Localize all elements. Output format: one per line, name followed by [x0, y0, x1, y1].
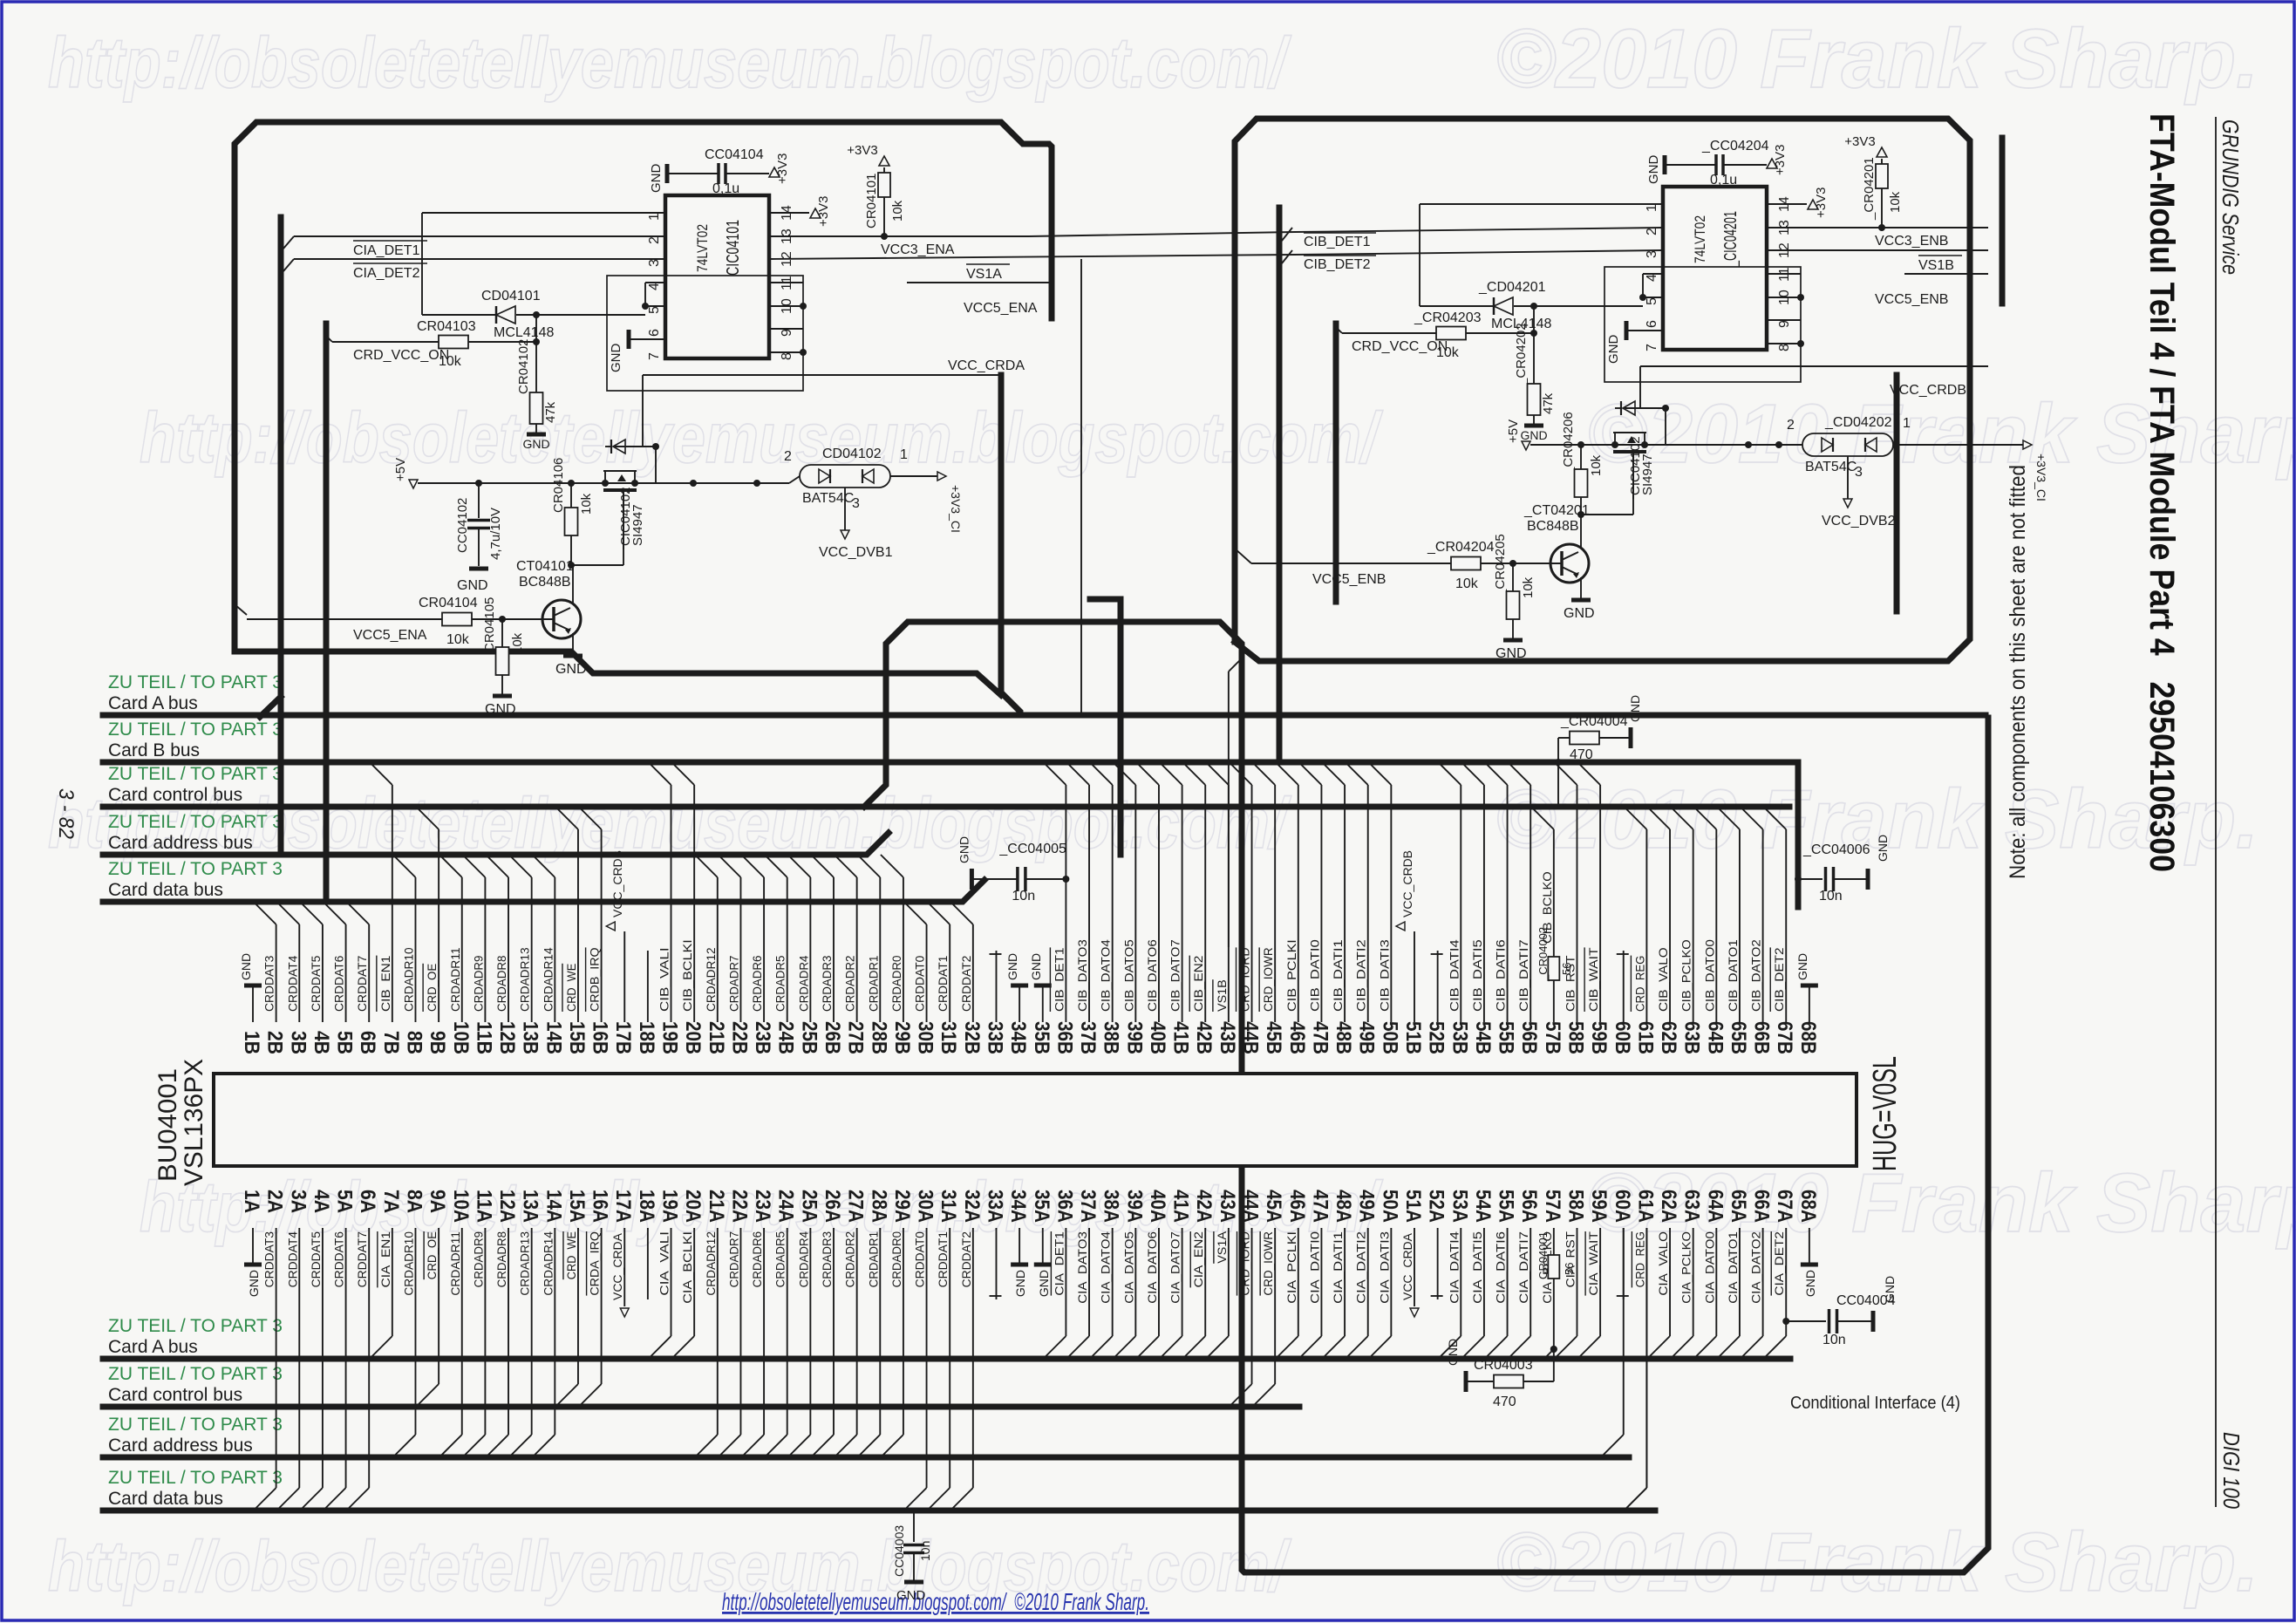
svg-text:CRDADR11: CRDADR11	[448, 947, 462, 1012]
ground below CR04102	[527, 433, 546, 437]
wire pin9 stub	[769, 328, 803, 330]
svg-text:47B: 47B	[1308, 1021, 1332, 1054]
svg-text:CIA_DATO7: CIA_DATO7	[1168, 1231, 1182, 1304]
svg-text:27A: 27A	[844, 1190, 868, 1223]
svg-text:41A: 41A	[1169, 1190, 1193, 1223]
svg-text:42A: 42A	[1192, 1190, 1216, 1223]
svg-text:CRDADR4: CRDADR4	[796, 1231, 810, 1288]
svg-text:65B: 65B	[1727, 1021, 1750, 1054]
svg-text:ZU TEIL / TO PART 3: ZU TEIL / TO PART 3	[108, 812, 283, 832]
svg-text:8: 8	[780, 352, 794, 360]
svg-text:10k: 10k	[890, 200, 905, 222]
card B trunk VCC down to bus	[1894, 375, 1900, 611]
svg-text:1: 1	[647, 213, 662, 221]
svg-text:CIA_BCLKI: CIA_BCLKI	[680, 1231, 694, 1304]
wire VCC_CRDA	[643, 374, 1001, 376]
svg-text:CRDADR12: CRDADR12	[704, 1231, 718, 1296]
svg-text:GND: GND	[1520, 428, 1547, 442]
ground at emitter CT04101	[572, 633, 574, 654]
svg-text:GND: GND	[555, 662, 587, 677]
svg-text:CRDDAT3: CRDDAT3	[262, 1231, 276, 1288]
svg-text:2: 2	[1787, 418, 1795, 433]
svg-text:CRDADR5: CRDADR5	[773, 1231, 787, 1288]
svg-text:_CR04203: _CR04203	[1414, 310, 1482, 325]
svg-text:52B: 52B	[1425, 1021, 1448, 1054]
svg-text:CRDADR7: CRDADR7	[726, 955, 740, 1012]
svg-text:CIA_DET2: CIA_DET2	[353, 266, 420, 281]
ground below _CR04205	[1503, 638, 1523, 643]
svg-text:24B: 24B	[774, 1021, 798, 1054]
svg-text:CIB_PCLKO: CIB_PCLKO	[1679, 939, 1693, 1012]
thick vertical trunk left A1	[278, 217, 284, 855]
wire pin8 stub	[1767, 343, 1801, 344]
svg-text:39A: 39A	[1122, 1190, 1146, 1223]
svg-text:17B: 17B	[611, 1021, 635, 1054]
svg-text:47k: 47k	[543, 401, 558, 423]
resistor _CR04205 10k	[1512, 563, 1514, 591]
svg-text:46A: 46A	[1285, 1190, 1309, 1223]
svg-text:CIA_RST: CIA_RST	[1563, 1231, 1577, 1288]
svg-text:CIA_PCLKO: CIA_PCLKO	[1679, 1231, 1693, 1304]
svg-text:CIB_DATO5: CIB_DATO5	[1121, 939, 1135, 1012]
VS1A trunk down from card A	[1080, 259, 1082, 713]
transistor CT04101 BC848B	[542, 600, 581, 638]
svg-text:3: 3	[1855, 465, 1863, 480]
svg-text:2: 2	[784, 449, 792, 464]
svg-text:13B: 13B	[519, 1021, 542, 1054]
svg-text:35B: 35B	[1030, 1021, 1053, 1054]
svg-text:CRDDAT5: CRDDAT5	[309, 1231, 323, 1288]
svg-text:ZU TEIL / TO PART 3: ZU TEIL / TO PART 3	[108, 859, 283, 879]
wire VCC5_ENA chamfer from envelope	[235, 604, 247, 615]
svg-text:36B: 36B	[1053, 1021, 1076, 1054]
svg-text:24A: 24A	[774, 1190, 798, 1223]
svg-text:+3V3: +3V3	[847, 143, 877, 158]
svg-text:CIB_WAIT: CIB_WAIT	[1586, 947, 1600, 1012]
svg-text:VCC5_ENA: VCC5_ENA	[353, 628, 427, 643]
svg-text:51A: 51A	[1401, 1190, 1425, 1223]
svg-text:19A: 19A	[658, 1190, 682, 1223]
svg-text:+5V: +5V	[1506, 419, 1521, 443]
ground at pin7 CIC04101	[627, 330, 631, 349]
svg-text:CRDADR10: CRDADR10	[401, 1231, 415, 1296]
svg-text:CC04004: CC04004	[1836, 1293, 1896, 1308]
svg-text:CC04102: CC04102	[455, 498, 470, 553]
transistor _CT04201 BC848B	[1550, 544, 1589, 583]
label CIA_DET2	[353, 263, 427, 264]
wire pin11 stub	[1767, 273, 1801, 275]
svg-text:26A: 26A	[821, 1190, 844, 1223]
svg-text:61B: 61B	[1633, 1021, 1657, 1054]
svg-text:CRDDAT1: CRDDAT1	[936, 1231, 950, 1288]
svg-text:CIB_EN1: CIB_EN1	[378, 955, 392, 1012]
margin divider rule	[2215, 117, 2217, 1507]
svg-text:ZU TEIL / TO PART 3: ZU TEIL / TO PART 3	[108, 1316, 283, 1336]
svg-text:54A: 54A	[1471, 1190, 1495, 1223]
svg-text:35A: 35A	[1030, 1190, 1053, 1223]
svg-text:50A: 50A	[1378, 1190, 1401, 1223]
card B left trunk 2	[1333, 324, 1339, 602]
svg-text:GND: GND	[1795, 953, 1809, 980]
resistor CR04003 470 with ground	[1550, 1346, 1557, 1353]
svg-text:CRDDAT6: CRDDAT6	[332, 1231, 346, 1288]
capacitor CC04102 4,7u/10V	[475, 480, 482, 487]
resistor CR04104 10k	[247, 618, 442, 620]
svg-text:10k: 10k	[579, 493, 594, 515]
resistor CR04103 10k	[516, 314, 645, 316]
label VSTB	[1918, 255, 1962, 256]
svg-text:38A: 38A	[1100, 1190, 1123, 1223]
svg-text:CIA_DATO3: CIA_DATO3	[1075, 1231, 1089, 1304]
svg-text:CIB_DATI4: CIB_DATI4	[1447, 939, 1461, 1012]
card A envelope bottom steps	[235, 651, 1001, 695]
svg-text:64B: 64B	[1703, 1021, 1727, 1054]
svg-text:+5V: +5V	[393, 458, 408, 481]
svg-text:37A: 37A	[1076, 1190, 1100, 1223]
svg-text:23A: 23A	[751, 1190, 774, 1223]
svg-text:Card control bus: Card control bus	[108, 1385, 242, 1405]
svg-text:63B: 63B	[1680, 1021, 1704, 1054]
svg-text:CIA_DATI1: CIA_DATI1	[1331, 1231, 1345, 1304]
svg-text:8B: 8B	[402, 1031, 426, 1054]
svg-text:CRDADR13: CRDADR13	[518, 1231, 532, 1296]
svg-text:21A: 21A	[705, 1190, 728, 1223]
svg-text:10n: 10n	[1819, 889, 1843, 904]
chamfer marks DET1 row	[283, 236, 294, 249]
svg-text:CIB_BCLKI: CIB_BCLKI	[680, 939, 694, 1012]
thick vertical trunk left A2	[324, 324, 330, 902]
svg-text:_CT04201: _CT04201	[1523, 503, 1590, 518]
svg-text:10n: 10n	[1822, 1333, 1846, 1347]
pin 61A line to data bus end	[1645, 1228, 1647, 1488]
wire pin1 loop _CD04201	[1420, 203, 1663, 205]
svg-text:58A: 58A	[1564, 1190, 1587, 1223]
svg-text:CRDADR14: CRDADR14	[541, 1231, 555, 1296]
svg-text:28B: 28B	[867, 1021, 890, 1054]
svg-text:+3V3: +3V3	[1773, 145, 1788, 175]
svg-text:_CR04205: _CR04205	[1493, 534, 1508, 597]
svg-text:_CR04004: _CR04004	[1560, 714, 1628, 729]
svg-text:CIB_DATO2: CIB_DATO2	[1749, 939, 1763, 1012]
svg-text:CT04101: CT04101	[516, 559, 574, 574]
svg-text:VCC_CRDA: VCC_CRDA	[948, 358, 1025, 373]
svg-text:CRDDAT7: CRDDAT7	[355, 955, 369, 1012]
svg-text:http://obsoletetellyemuseum.bl: http://obsoletetellyemuseum.blogspot.com…	[48, 24, 1291, 103]
svg-text:10A: 10A	[449, 1190, 473, 1223]
svg-text:3B: 3B	[286, 1031, 310, 1054]
svg-text:FTA-Modul Teil 4 / FTA Module: FTA-Modul Teil 4 / FTA Module Part 4 295…	[2143, 113, 2181, 872]
svg-text:15B: 15B	[565, 1021, 589, 1054]
svg-text:3A: 3A	[286, 1190, 310, 1213]
svg-text:GND: GND	[649, 164, 664, 194]
svg-text:GND: GND	[1876, 835, 1890, 862]
ground below CR04105	[493, 694, 512, 699]
svg-text:BC848B: BC848B	[1527, 519, 1579, 534]
svg-text:CRDDAT0: CRDDAT0	[913, 1231, 927, 1288]
svg-text:42B: 42B	[1192, 1021, 1216, 1054]
svg-text:9A: 9A	[426, 1190, 449, 1213]
svg-text:ZU TEIL / TO PART 3: ZU TEIL / TO PART 3	[108, 719, 283, 740]
svg-text:31B: 31B	[937, 1021, 960, 1054]
svg-text:VCC3_ENA: VCC3_ENA	[881, 242, 955, 257]
svg-text:38B: 38B	[1100, 1021, 1123, 1054]
svg-text:59B: 59B	[1587, 1021, 1611, 1054]
svg-text:0,1u: 0,1u	[1710, 173, 1737, 188]
svg-text:VS1B: VS1B	[1918, 258, 1954, 273]
svg-text:CIA_DATI0: CIA_DATI0	[1307, 1231, 1321, 1304]
svg-text:GND: GND	[609, 344, 623, 373]
svg-text:46B: 46B	[1285, 1021, 1309, 1054]
svg-text:40B: 40B	[1146, 1021, 1169, 1054]
svg-text:VCC_CRDA: VCC_CRDA	[1400, 1232, 1414, 1300]
svg-text:26B: 26B	[821, 1021, 844, 1054]
svg-text:CIA_DATI7: CIA_DATI7	[1516, 1231, 1530, 1304]
wire pin1 loop CD04101	[422, 212, 665, 214]
svg-text:CRDDAT6: CRDDAT6	[332, 955, 346, 1012]
svg-text:10k: 10k	[1455, 576, 1479, 591]
svg-text:23B: 23B	[751, 1021, 774, 1054]
svg-text:CIB_DET2: CIB_DET2	[1304, 257, 1371, 272]
svg-text:39B: 39B	[1122, 1021, 1146, 1054]
svg-text:53A: 53A	[1448, 1190, 1471, 1223]
svg-text:CRDADR3: CRDADR3	[820, 955, 834, 1012]
svg-text:CIA_EN1: CIA_EN1	[378, 1231, 392, 1288]
svg-text:GND: GND	[247, 1270, 261, 1297]
svg-text:GND: GND	[1628, 695, 1642, 722]
svg-text:47A: 47A	[1308, 1190, 1332, 1223]
svg-text:CIB_DET1: CIB_DET1	[1052, 947, 1066, 1012]
svg-text:CRDADR0: CRDADR0	[889, 955, 903, 1012]
svg-text:_CC04006: _CC04006	[1802, 842, 1870, 857]
svg-text:CC04104: CC04104	[705, 147, 764, 162]
svg-text:10n: 10n	[1012, 889, 1035, 904]
svg-text:CIB_DATI0: CIB_DATI0	[1307, 939, 1321, 1012]
svg-text:CRDADR4: CRDADR4	[796, 955, 810, 1012]
svg-text:CD04102: CD04102	[822, 447, 882, 461]
svg-text:CRDDAT4: CRDDAT4	[285, 955, 299, 1012]
svg-text:16B: 16B	[589, 1021, 612, 1054]
svg-text:48A: 48A	[1332, 1190, 1355, 1223]
svg-text:CRDADR0: CRDADR0	[889, 1231, 903, 1288]
svg-text:CR04105: CR04105	[482, 597, 497, 652]
svg-text:CC04003: CC04003	[892, 1525, 906, 1577]
svg-text:9B: 9B	[426, 1031, 449, 1054]
svg-text:10k: 10k	[1521, 576, 1536, 598]
svg-text:10B: 10B	[449, 1021, 473, 1054]
svg-text:15A: 15A	[565, 1190, 589, 1223]
svg-text:SI4947: SI4947	[630, 504, 645, 546]
svg-text:6A: 6A	[356, 1190, 379, 1213]
ground below _CR04202	[1524, 424, 1543, 428]
svg-text:GND: GND	[485, 702, 516, 717]
svg-text:CRDADR1: CRDADR1	[866, 1231, 880, 1288]
diode _CD04202 BAT54C	[1802, 433, 1893, 456]
svg-text:28A: 28A	[867, 1190, 890, 1223]
svg-text:58B: 58B	[1564, 1021, 1587, 1054]
svg-text:9: 9	[1777, 320, 1792, 328]
wire VCC5_ENB pin11 row	[1904, 273, 1988, 275]
svg-text:_CR04201: _CR04201	[1862, 157, 1877, 221]
svg-text:7A: 7A	[379, 1190, 403, 1213]
svg-text:5: 5	[647, 306, 662, 314]
svg-text:Card A bus: Card A bus	[108, 1337, 198, 1357]
capacitor CC04003 10n bottom	[913, 1510, 915, 1542]
svg-text:CRD_WE: CRD_WE	[564, 964, 578, 1012]
svg-text:11A: 11A	[472, 1190, 495, 1223]
svg-text:20A: 20A	[681, 1190, 705, 1223]
capacitor CC04005 10n	[1062, 876, 1069, 883]
svg-text:CRDADR2: CRDADR2	[843, 1231, 857, 1288]
svg-text:CRDDAT1: CRDDAT1	[936, 955, 950, 1012]
svg-text:12A: 12A	[495, 1190, 519, 1223]
svg-text:+3V3: +3V3	[1814, 188, 1829, 218]
svg-text:VCC5_ENA: VCC5_ENA	[964, 301, 1038, 316]
wire pin11 stub	[769, 282, 803, 283]
svg-text:CIB_DATI1: CIB_DATI1	[1331, 939, 1345, 1012]
svg-text:GND: GND	[522, 437, 549, 451]
svg-text:VCC_CRDB: VCC_CRDB	[1890, 383, 1966, 398]
card B envelope	[1235, 119, 1970, 661]
svg-text:37B: 37B	[1076, 1021, 1100, 1054]
wire pin8 stub	[769, 351, 803, 353]
svg-text:CRD_OE: CRD_OE	[425, 1231, 439, 1279]
svg-text:BAT54C: BAT54C	[802, 491, 854, 506]
svg-text:60A: 60A	[1611, 1190, 1634, 1223]
svg-text:CRD_REG: CRD_REG	[1632, 1231, 1646, 1287]
svg-text:5: 5	[1645, 297, 1659, 305]
svg-text:Card control bus: Card control bus	[108, 785, 242, 805]
ground at emitter _CT04201	[1580, 577, 1582, 598]
svg-text:CIB_DATO6: CIB_DATO6	[1145, 939, 1159, 1012]
svg-text:GND: GND	[896, 1588, 926, 1603]
svg-text:©2010 Frank Sharp.: ©2010 Frank Sharp.	[1495, 1516, 2259, 1609]
svg-text:CRDADR9: CRDADR9	[471, 955, 485, 1012]
svg-text:470: 470	[1570, 747, 1593, 762]
wire CRD_VCC_ON B	[1342, 332, 1436, 334]
wire +5V rail A	[418, 482, 789, 484]
svg-text:_CR04002: _CR04002	[1536, 927, 1550, 982]
svg-text:CIB_DATI3: CIB_DATI3	[1377, 939, 1391, 1012]
svg-text:CIA_DATI2: CIA_DATI2	[1354, 1231, 1368, 1304]
svg-text:DIGI 100: DIGI 100	[2218, 1432, 2245, 1509]
svg-text:Card B bus: Card B bus	[108, 740, 200, 760]
diode _CD04201 MCL4148	[1420, 305, 1494, 307]
svg-text:CIA_DATO6: CIA_DATO6	[1145, 1231, 1159, 1304]
resistor _CR04206 10k	[1577, 441, 1584, 448]
svg-text:62A: 62A	[1657, 1190, 1680, 1223]
svg-text:44B: 44B	[1239, 1021, 1263, 1054]
svg-text:3: 3	[1645, 250, 1659, 258]
svg-text:1: 1	[1903, 416, 1911, 431]
svg-text:65A: 65A	[1727, 1190, 1750, 1223]
svg-text:1A: 1A	[240, 1190, 263, 1213]
svg-text:32A: 32A	[960, 1190, 984, 1223]
svg-text:_CIC04201: _CIC04201	[1721, 211, 1741, 268]
svg-text:VCC_CRDB: VCC_CRDB	[610, 850, 624, 917]
svg-text:68A: 68A	[1796, 1190, 1820, 1223]
svg-text:GND: GND	[1803, 1270, 1817, 1297]
svg-text:CRDADR13: CRDADR13	[518, 947, 532, 1012]
svg-text:13A: 13A	[519, 1190, 542, 1223]
svg-text:+3V3: +3V3	[1844, 134, 1875, 149]
svg-text:VCC3_ENB: VCC3_ENB	[1875, 234, 1948, 249]
chamfer join x322 to card A bus	[260, 697, 281, 717]
svg-text:21B: 21B	[705, 1021, 728, 1054]
svg-text:CIB_DATI5: CIB_DATI5	[1470, 939, 1484, 1012]
svg-text:43B: 43B	[1216, 1021, 1239, 1054]
svg-text:74LVT02: 74LVT02	[694, 224, 711, 272]
pin frame box of CIC04101	[607, 276, 803, 391]
svg-text:52A: 52A	[1425, 1190, 1448, 1223]
svg-text:34A: 34A	[1006, 1190, 1030, 1223]
svg-text:50B: 50B	[1378, 1021, 1401, 1054]
resistor _CR04204 10k	[1251, 563, 1451, 564]
svg-text:GND: GND	[1029, 953, 1043, 980]
svg-text:12B: 12B	[495, 1021, 519, 1054]
svg-text:63A: 63A	[1680, 1190, 1704, 1223]
pin 43B VS1B long line	[1228, 672, 1230, 947]
svg-text:6: 6	[647, 329, 662, 337]
capacitor CC04004 10n at 67A	[1782, 1318, 1789, 1325]
svg-text:CIB_DATO4: CIB_DATO4	[1099, 939, 1113, 1012]
svg-text:10k: 10k	[446, 632, 470, 647]
svg-text:0,1u: 0,1u	[712, 181, 739, 196]
svg-text:25A: 25A	[797, 1190, 821, 1223]
svg-text:CIB_DET2: CIB_DET2	[1772, 947, 1786, 1012]
svg-text:3: 3	[852, 496, 860, 511]
svg-text:+3V3: +3V3	[816, 196, 831, 227]
svg-text:CIB_EN2: CIB_EN2	[1191, 955, 1205, 1012]
svg-text:CRDDAT5: CRDDAT5	[309, 955, 323, 1012]
svg-text:CIA_DET1: CIA_DET1	[1052, 1231, 1066, 1296]
svg-text:CIA_EN2: CIA_EN2	[1191, 1231, 1205, 1288]
svg-text:CIA_DATI3: CIA_DATI3	[1377, 1231, 1391, 1304]
connector BU04001 VSL136PX body	[214, 1074, 1857, 1166]
svg-text:5A: 5A	[333, 1190, 357, 1213]
wire +5V rail B	[1530, 444, 1802, 446]
wire pin9 stub	[1767, 319, 1801, 321]
svg-text:GND: GND	[1446, 1339, 1460, 1366]
svg-text:VCC_DVB1: VCC_DVB1	[819, 545, 893, 560]
svg-text:CRDADR10: CRDADR10	[401, 947, 415, 1012]
svg-text:29B: 29B	[890, 1021, 914, 1054]
svg-text:CIB_DATO0: CIB_DATO0	[1702, 939, 1716, 1012]
svg-text:64A: 64A	[1703, 1190, 1727, 1223]
svg-text:56A: 56A	[1517, 1190, 1541, 1223]
svg-text:14A: 14A	[542, 1190, 565, 1223]
svg-text:68B: 68B	[1796, 1021, 1820, 1054]
svg-text:MCL4148: MCL4148	[494, 325, 554, 340]
svg-text:Card address bus: Card address bus	[108, 833, 253, 853]
card B left trunk 1	[1277, 208, 1283, 762]
resistor _CR04202 47k	[1528, 384, 1541, 415]
svg-text:67B: 67B	[1773, 1021, 1796, 1054]
svg-text:66A: 66A	[1750, 1190, 1774, 1223]
svg-text:30A: 30A	[914, 1190, 937, 1223]
svg-text:CIB_DATI7: CIB_DATI7	[1516, 939, 1530, 1012]
svg-text:33B: 33B	[983, 1021, 1006, 1054]
resistor CR04105 10k	[501, 619, 503, 647]
svg-text:470: 470	[1493, 1395, 1516, 1409]
svg-text:CRDDAT3: CRDDAT3	[262, 955, 276, 1012]
svg-text:31A: 31A	[937, 1190, 960, 1223]
svg-text:CRDDAT0: CRDDAT0	[913, 955, 927, 1012]
wire CRD_VCC_ON A	[332, 341, 439, 343]
svg-text:41B: 41B	[1169, 1021, 1193, 1054]
svg-text:33A: 33A	[983, 1190, 1006, 1223]
svg-text:_CC04204: _CC04204	[1701, 139, 1769, 153]
svg-text:8: 8	[1777, 344, 1792, 351]
